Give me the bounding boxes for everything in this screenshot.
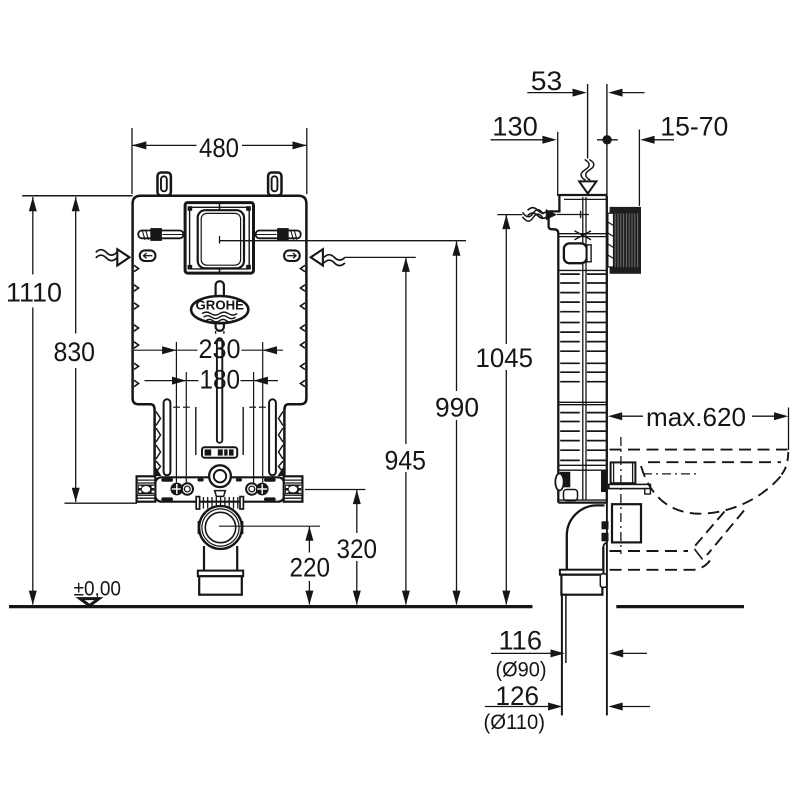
window corner marks bbox=[188, 206, 251, 269]
dim 180 bbox=[145, 372, 279, 483]
division line low bbox=[559, 464, 607, 466]
left edge serrations bbox=[134, 265, 139, 386]
collar tab bbox=[600, 574, 607, 587]
inlet circle above rail bbox=[209, 465, 231, 487]
center flush pipe pill bbox=[217, 338, 222, 443]
dim 15-70 bbox=[639, 130, 674, 207]
side tank outline bbox=[549, 194, 607, 503]
mounting rail body bbox=[155, 477, 284, 501]
bowl outlet horizontals bbox=[610, 550, 689, 552]
dim 130 bbox=[491, 132, 558, 196]
side circle small bbox=[555, 474, 563, 491]
centerline from window cross to side view bbox=[220, 236, 467, 244]
svg-text:±0,00: ±0,00 bbox=[74, 577, 122, 601]
vertical dash-dot centerline bbox=[620, 437, 622, 554]
rail end block left bbox=[137, 476, 156, 501]
rail dark slots bbox=[161, 478, 275, 501]
center rails bbox=[583, 197, 586, 500]
svg-text:320: 320 bbox=[337, 534, 378, 564]
steam arrow right bbox=[311, 249, 345, 265]
rib ladder lower bbox=[560, 413, 606, 461]
side window thin rect bbox=[587, 245, 591, 262]
svg-text:15-70: 15-70 bbox=[660, 111, 728, 141]
throat thin lines bbox=[196, 407, 243, 455]
fixing slot right bbox=[284, 250, 300, 261]
bowl outlet diagonals bbox=[707, 511, 744, 556]
foot inner detail bbox=[564, 490, 578, 501]
steam squiggle top bbox=[581, 160, 594, 181]
ticks below stem bbox=[216, 331, 224, 334]
throat serration flange right bbox=[279, 412, 284, 473]
dim 220 bbox=[308, 526, 310, 604]
svg-text:830: 830 bbox=[54, 337, 96, 367]
dim 990 bbox=[456, 241, 458, 604]
foot line bbox=[559, 469, 606, 471]
right edge serrations bbox=[300, 265, 305, 386]
bolt dark left bbox=[170, 483, 183, 496]
corner wedge right bbox=[278, 467, 284, 476]
wall anchor rod left bbox=[138, 228, 183, 241]
top cap inner line bbox=[564, 198, 606, 200]
svg-text:53: 53 bbox=[531, 66, 563, 96]
side service window bbox=[564, 243, 587, 263]
elbow collar rim bbox=[560, 570, 604, 575]
GROHE waves bbox=[202, 312, 237, 322]
throat pill left bbox=[164, 399, 171, 475]
dim 230 bbox=[134, 342, 283, 483]
dim 53 bbox=[527, 92, 644, 94]
WC bowl dashed second line bbox=[648, 461, 781, 463]
svg-text:116: 116 bbox=[499, 626, 543, 656]
ext line crossbars bbox=[173, 406, 266, 408]
tank outline with throat bbox=[133, 196, 307, 477]
wall dot bbox=[597, 135, 618, 144]
connection plate bbox=[609, 484, 651, 488]
knurled adjuster bbox=[610, 207, 641, 274]
top hanger bracket left bbox=[158, 173, 171, 196]
WC bowl dashed top line bbox=[610, 449, 788, 451]
rail end block right bbox=[284, 476, 303, 501]
horizontal dash-dot flush axis bbox=[643, 473, 696, 475]
svg-text:945: 945 bbox=[385, 446, 427, 476]
facet strip bbox=[608, 213, 614, 267]
svg-text:max.620: max.620 bbox=[646, 402, 746, 432]
dim 945 bbox=[345, 257, 416, 604]
water inlet arrow side bbox=[528, 208, 589, 221]
svg-text:(Ø90): (Ø90) bbox=[496, 658, 547, 682]
fixing slot left bbox=[140, 250, 156, 261]
steam arrow left bbox=[96, 249, 130, 265]
down pipe below collar bbox=[562, 84, 607, 715]
funnel arrow bbox=[579, 181, 596, 193]
throat serration flange left bbox=[156, 412, 161, 473]
WC bowl right edge bbox=[782, 452, 789, 475]
foot black block left bbox=[560, 472, 571, 488]
floor line bbox=[9, 605, 744, 608]
full width rib line bbox=[559, 269, 606, 271]
dim 480 bbox=[132, 128, 307, 194]
outlet pipe walls bbox=[204, 546, 237, 571]
elbow collar body bbox=[561, 575, 602, 595]
tank bottom inner line bbox=[559, 499, 607, 501]
top hanger bracket right bbox=[268, 173, 281, 196]
dim 116 bbox=[491, 652, 551, 654]
svg-text:480: 480 bbox=[199, 133, 239, 163]
dim 1110 bbox=[22, 196, 132, 605]
svg-text:220: 220 bbox=[290, 553, 331, 583]
throat pill right bbox=[269, 399, 276, 475]
flush connection box bbox=[611, 462, 636, 483]
dim 1045 bbox=[497, 215, 522, 605]
svg-text:1045: 1045 bbox=[476, 343, 534, 373]
label bar bbox=[202, 447, 237, 458]
big outlet circle bbox=[199, 506, 243, 549]
bolt dark right bbox=[256, 483, 269, 496]
wall anchor rod right bbox=[256, 228, 301, 241]
window center ticks bbox=[219, 203, 221, 273]
corner wedge left bbox=[156, 467, 162, 476]
svg-text:990: 990 bbox=[435, 393, 479, 423]
waste elbow bbox=[567, 505, 607, 569]
flush plate window frames bbox=[185, 203, 253, 274]
dim max.620 bbox=[621, 408, 788, 451]
outlet socket bbox=[198, 571, 243, 595]
bolt open left bbox=[182, 483, 193, 494]
svg-text:(Ø110): (Ø110) bbox=[484, 710, 546, 734]
GROHE logo stem bbox=[216, 281, 224, 331]
svg-text:126: 126 bbox=[496, 681, 540, 711]
division lines mid bbox=[559, 402, 607, 404]
GROHE logo oval bbox=[191, 296, 248, 323]
svg-text:130: 130 bbox=[492, 111, 538, 141]
WC bowl belly bbox=[641, 466, 783, 514]
X detail lines bbox=[559, 231, 606, 240]
datum symbol bbox=[80, 599, 99, 606]
dim 320 bbox=[305, 490, 366, 605]
foot black block right bbox=[601, 471, 608, 493]
bolt open right bbox=[246, 483, 257, 494]
black clamp squares bbox=[602, 521, 609, 529]
svg-text:1110: 1110 bbox=[6, 278, 62, 308]
svg-text:GROHE: GROHE bbox=[196, 297, 245, 312]
rib ladder upper bbox=[560, 274, 606, 382]
dim 126 bbox=[485, 706, 549, 708]
small cup under inlet circle bbox=[215, 491, 226, 497]
holder comb bbox=[196, 497, 243, 509]
svg-text:180: 180 bbox=[200, 365, 241, 395]
outlet connection box bbox=[612, 504, 641, 542]
plate hook bbox=[645, 489, 651, 494]
outlet centerline to 220 ext bbox=[219, 525, 320, 527]
flush pipe axis line bbox=[587, 84, 589, 159]
squiggle on 1045 ext bbox=[523, 210, 544, 221]
dim 830 bbox=[65, 197, 138, 503]
svg-text:230: 230 bbox=[199, 334, 241, 364]
